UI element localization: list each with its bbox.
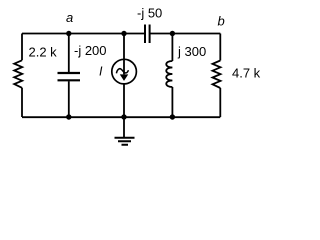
svg-text:I: I [99,65,103,79]
svg-text:b: b [218,14,225,29]
svg-text:a: a [66,10,73,25]
svg-text:2.2 k: 2.2 k [29,44,58,59]
svg-text:j 300: j 300 [177,44,206,59]
svg-text:-j 200: -j 200 [74,43,107,58]
svg-text:-j 50: -j 50 [137,6,162,21]
svg-text:4.7 k: 4.7 k [232,66,261,81]
